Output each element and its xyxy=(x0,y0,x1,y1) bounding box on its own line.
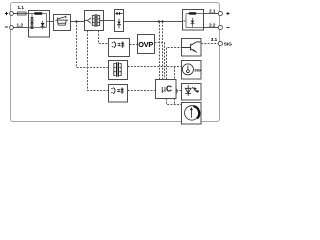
SIG lamp box xyxy=(182,61,202,80)
SIG lamp circle xyxy=(182,64,193,75)
wire transformer to rectifier xyxy=(104,20,115,22)
microcontroller box xyxy=(156,80,177,99)
output inductor bead xyxy=(189,12,197,14)
dashed bus L1 to uC xyxy=(159,22,161,80)
wire fuse to input protection xyxy=(26,13,29,15)
svg-text:µC: µC xyxy=(161,84,172,94)
dashed wire transistor to terminal 3.1 xyxy=(201,43,218,45)
rectifier diode D4 xyxy=(115,13,122,15)
wire chopper to DC/DC transformer xyxy=(71,21,85,23)
wire protection to chopper xyxy=(50,21,54,23)
output filter box xyxy=(183,10,204,31)
dashed wire lower optocoupler to uC xyxy=(128,90,156,92)
svg-text:SIG: SIG xyxy=(194,68,201,72)
rectifier box xyxy=(115,10,124,32)
plus input xyxy=(5,12,8,15)
dashed wire transformer to lower optocoupler xyxy=(88,31,109,91)
terminal 1.1 xyxy=(10,12,14,16)
junction chopper-transformer xyxy=(75,20,77,22)
LED D7 xyxy=(185,85,191,96)
minus output xyxy=(226,26,229,28)
transformer T2 core xyxy=(117,62,119,76)
wire terminal 1.2 to input protection xyxy=(13,27,28,29)
fuse F1 xyxy=(18,12,27,15)
dashed branch below hop xyxy=(174,95,176,105)
clamp diode D3 xyxy=(42,21,44,30)
dashed wire uC to potentiometer xyxy=(167,99,182,105)
dashed branch down from SIG line xyxy=(174,67,176,88)
junction bus L2 xyxy=(161,20,163,22)
terminal 3.1 xyxy=(218,41,222,45)
dashed wire junction to signal transformer xyxy=(77,22,109,68)
junction bus L1 xyxy=(158,20,160,22)
svg-text:OVP: OVP xyxy=(138,40,153,49)
potentiometer box xyxy=(182,103,202,125)
svg-text:1.1: 1.1 xyxy=(18,5,25,10)
DC/DC transformer box xyxy=(85,11,104,31)
OVP box xyxy=(138,35,155,54)
device outline xyxy=(11,3,220,122)
dashed wire signal transformer to SIG lamp xyxy=(128,66,182,68)
svg-text:3.1: 3.1 xyxy=(211,37,218,42)
dashed bus L4 uC to transistor base xyxy=(167,48,182,80)
transistor Q1 xyxy=(182,42,202,53)
plus output xyxy=(226,12,229,15)
chopper box xyxy=(54,15,71,31)
minus input xyxy=(5,26,8,28)
protection internal wiring xyxy=(29,14,50,28)
upper optocoupler box xyxy=(109,39,130,57)
push-pull switch xyxy=(85,18,91,24)
svg-text:SIG: SIG xyxy=(224,41,232,46)
transformer T2 windings xyxy=(114,63,121,76)
transformer T1 windings xyxy=(92,15,103,26)
svg-text:1.2: 1.2 xyxy=(17,23,24,28)
filter diode D5 xyxy=(118,19,120,29)
output internal wiring xyxy=(183,14,204,28)
potentiometer knob xyxy=(185,106,199,120)
output clamp diode D6 xyxy=(191,21,195,24)
main wire rectifier to output filter xyxy=(124,21,183,23)
chopper tub xyxy=(55,20,68,25)
dashed wire uC to LED xyxy=(176,90,182,92)
dashed bus L2 to uC xyxy=(162,22,164,80)
series inductor bead xyxy=(34,12,43,14)
LED box xyxy=(182,84,202,101)
wire terminal 1.1 to fuse xyxy=(13,13,17,15)
wire output filter to terminal 2.1 xyxy=(204,13,219,15)
chopper switch xyxy=(58,16,66,20)
signal transformer box xyxy=(109,61,128,80)
dashed wire upper optocoupler to OVP xyxy=(130,44,138,46)
wire hop over uC-LED wire xyxy=(175,87,178,95)
svg-text:2.1: 2.1 xyxy=(209,9,216,14)
terminal 2.1 xyxy=(218,11,222,15)
SIG transistor box xyxy=(182,39,202,57)
svg-text:2.2: 2.2 xyxy=(209,23,216,28)
wire output filter to terminal 2.2 xyxy=(204,27,219,29)
dashed wire transformer to upper optocoupler xyxy=(99,31,109,44)
terminal 1.2 xyxy=(10,26,14,30)
lower optocoupler U2 xyxy=(111,88,122,94)
input protection box xyxy=(29,11,50,38)
suppressor diode D1 xyxy=(30,17,33,20)
upper optocoupler U1 xyxy=(112,42,123,48)
suppressor diode D2 xyxy=(30,23,33,26)
lower optocoupler box xyxy=(109,85,128,103)
dashed wire OVP to uC bus L3 xyxy=(155,43,165,80)
terminal 2.2 xyxy=(218,25,222,29)
transformer T1 core xyxy=(95,14,97,26)
